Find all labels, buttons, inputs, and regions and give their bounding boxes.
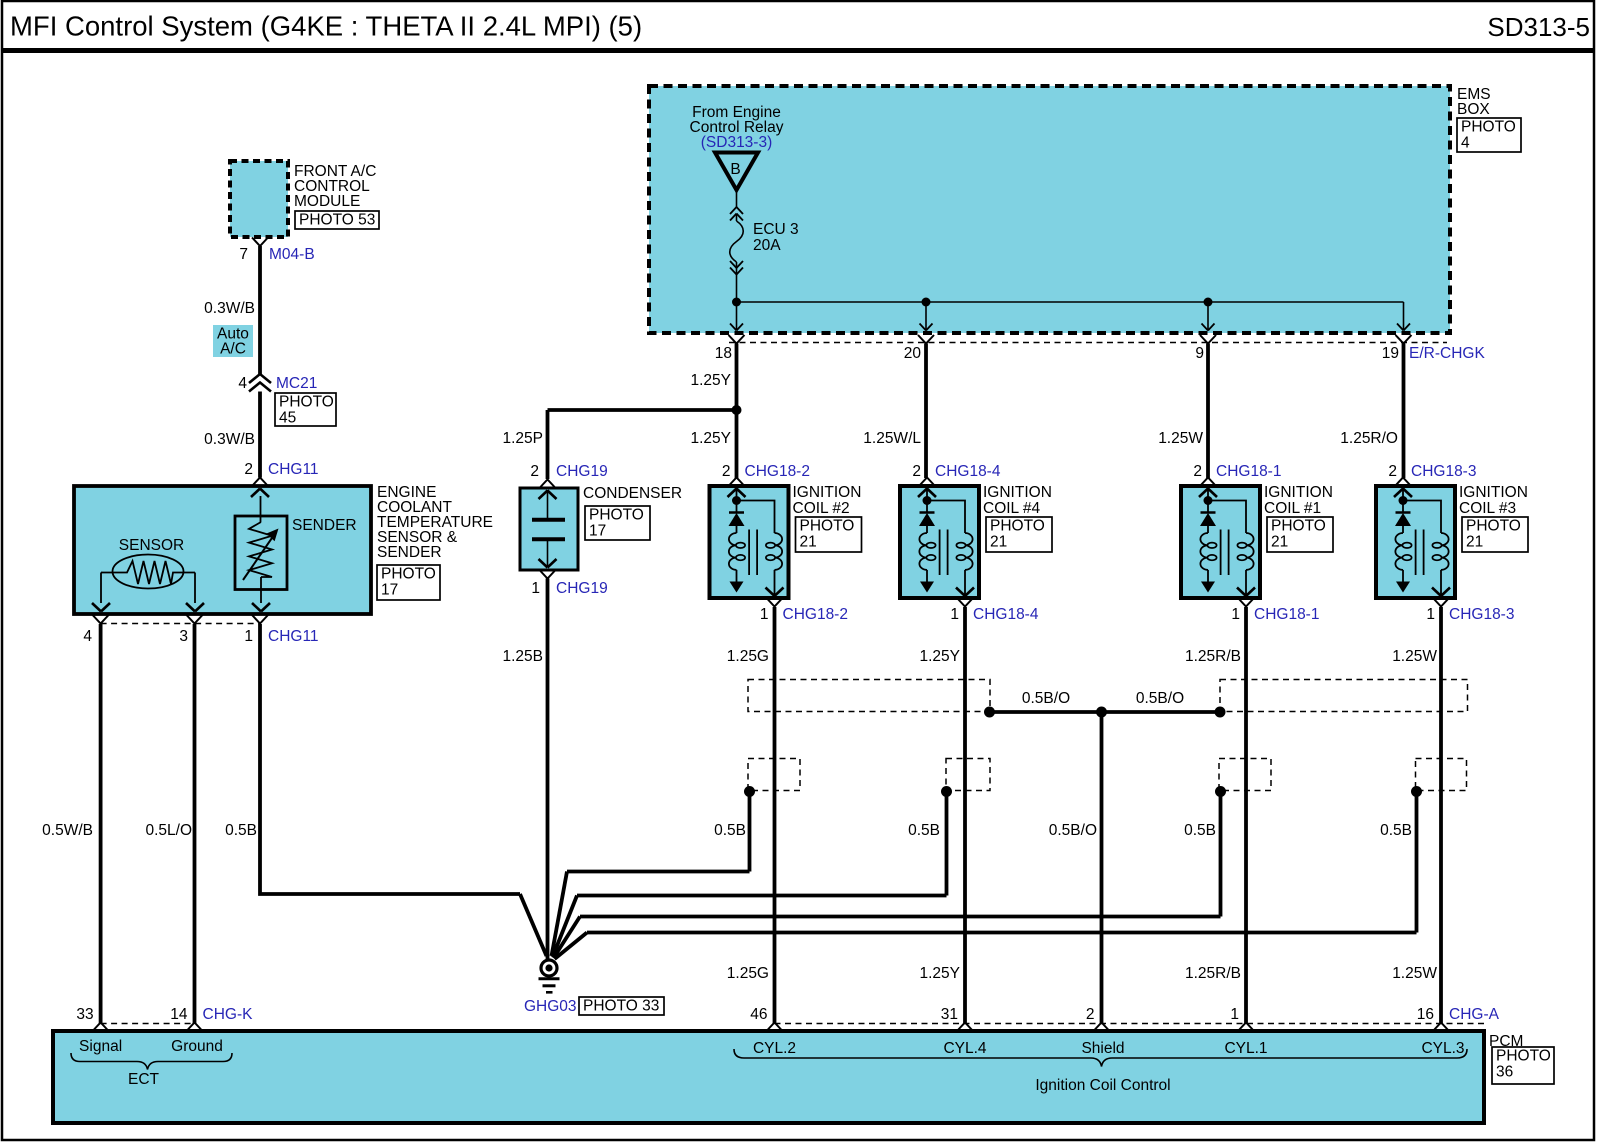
svg-text:4: 4 bbox=[1461, 135, 1470, 152]
svg-text:Ignition Coil Control: Ignition Coil Control bbox=[1035, 1077, 1170, 1094]
svg-text:4: 4 bbox=[83, 628, 92, 645]
svg-text:SENDER: SENDER bbox=[292, 517, 357, 534]
svg-text:Shield: Shield bbox=[1081, 1040, 1124, 1057]
svg-text:19: 19 bbox=[1382, 345, 1399, 362]
svg-text:20A: 20A bbox=[753, 237, 781, 254]
svg-text:17: 17 bbox=[381, 582, 398, 599]
svg-text:1.25W: 1.25W bbox=[1158, 430, 1203, 447]
svg-text:36: 36 bbox=[1496, 1064, 1513, 1081]
svg-text:4: 4 bbox=[238, 375, 247, 392]
svg-text:SD313-5: SD313-5 bbox=[1487, 12, 1590, 42]
svg-text:2: 2 bbox=[1193, 463, 1202, 480]
svg-text:1: 1 bbox=[760, 606, 769, 623]
svg-text:21: 21 bbox=[1271, 534, 1288, 551]
svg-text:0.5B: 0.5B bbox=[1380, 822, 1412, 839]
svg-text:0.5B: 0.5B bbox=[714, 822, 746, 839]
svg-text:PHOTO: PHOTO bbox=[589, 507, 644, 524]
svg-text:9: 9 bbox=[1195, 345, 1204, 362]
svg-text:21: 21 bbox=[800, 534, 817, 551]
svg-text:(SD313-3): (SD313-3) bbox=[701, 134, 773, 151]
svg-text:CONDENSER: CONDENSER bbox=[583, 485, 682, 502]
svg-text:CHG18-2: CHG18-2 bbox=[745, 463, 810, 480]
svg-text:IGNITION: IGNITION bbox=[983, 484, 1052, 501]
svg-text:20: 20 bbox=[904, 345, 922, 362]
svg-text:MC21: MC21 bbox=[276, 375, 317, 392]
svg-text:1: 1 bbox=[1230, 1006, 1239, 1023]
svg-text:CHG18-1: CHG18-1 bbox=[1216, 463, 1281, 480]
svg-text:0.5B/O: 0.5B/O bbox=[1136, 690, 1184, 707]
svg-text:7: 7 bbox=[239, 246, 248, 263]
svg-text:CHG-A: CHG-A bbox=[1449, 1006, 1500, 1023]
svg-text:0.5W/B: 0.5W/B bbox=[42, 822, 93, 839]
svg-text:COIL #2: COIL #2 bbox=[793, 500, 850, 517]
svg-text:GHG03: GHG03 bbox=[524, 998, 577, 1015]
svg-text:1: 1 bbox=[531, 580, 540, 597]
svg-text:2: 2 bbox=[722, 463, 731, 480]
svg-text:IGNITION: IGNITION bbox=[1459, 484, 1528, 501]
svg-text:1.25Y: 1.25Y bbox=[919, 965, 960, 982]
svg-text:1.25W/L: 1.25W/L bbox=[863, 430, 921, 447]
svg-text:1.25R/B: 1.25R/B bbox=[1185, 648, 1241, 665]
svg-text:PHOTO: PHOTO bbox=[381, 566, 436, 583]
svg-text:1: 1 bbox=[244, 628, 253, 645]
svg-text:14: 14 bbox=[170, 1006, 188, 1023]
svg-text:0.5B/O: 0.5B/O bbox=[1022, 690, 1070, 707]
svg-text:1.25P: 1.25P bbox=[502, 430, 543, 447]
svg-text:CHG18-4: CHG18-4 bbox=[973, 606, 1039, 623]
svg-text:1.25B: 1.25B bbox=[502, 648, 543, 665]
svg-text:CHG11: CHG11 bbox=[268, 628, 319, 645]
svg-text:ECU 3: ECU 3 bbox=[753, 221, 799, 238]
svg-text:0.5B: 0.5B bbox=[908, 822, 940, 839]
svg-text:2: 2 bbox=[912, 463, 921, 480]
svg-text:CHG-K: CHG-K bbox=[203, 1006, 254, 1023]
svg-text:PHOTO: PHOTO bbox=[1271, 518, 1326, 535]
svg-text:CHG18-4: CHG18-4 bbox=[935, 463, 1001, 480]
svg-text:21: 21 bbox=[990, 534, 1007, 551]
svg-text:CHG18-1: CHG18-1 bbox=[1254, 606, 1319, 623]
svg-text:SENSOR: SENSOR bbox=[119, 537, 184, 554]
svg-text:PHOTO: PHOTO bbox=[1461, 119, 1516, 136]
svg-text:46: 46 bbox=[750, 1006, 767, 1023]
svg-text:1.25Y: 1.25Y bbox=[919, 648, 960, 665]
svg-text:PHOTO: PHOTO bbox=[800, 518, 855, 535]
svg-text:PHOTO 33: PHOTO 33 bbox=[583, 998, 659, 1015]
svg-text:COIL #3: COIL #3 bbox=[1459, 500, 1516, 517]
svg-text:PHOTO: PHOTO bbox=[1466, 518, 1521, 535]
svg-text:0.3W/B: 0.3W/B bbox=[204, 431, 255, 448]
svg-text:2: 2 bbox=[530, 463, 539, 480]
svg-text:A/C: A/C bbox=[220, 341, 246, 358]
svg-text:1: 1 bbox=[1231, 606, 1240, 623]
svg-text:E/R-CHGK: E/R-CHGK bbox=[1409, 345, 1485, 362]
svg-text:CYL.2: CYL.2 bbox=[753, 1040, 796, 1057]
svg-text:CHG11: CHG11 bbox=[268, 461, 319, 478]
svg-text:3: 3 bbox=[179, 628, 188, 645]
svg-text:COIL #1: COIL #1 bbox=[1264, 500, 1321, 517]
svg-text:CHG18-2: CHG18-2 bbox=[783, 606, 848, 623]
svg-text:M04-B: M04-B bbox=[269, 246, 315, 263]
svg-text:1: 1 bbox=[1426, 606, 1435, 623]
svg-text:SENDER: SENDER bbox=[377, 544, 442, 561]
svg-text:PHOTO: PHOTO bbox=[279, 394, 334, 411]
svg-text:CHG19: CHG19 bbox=[556, 580, 608, 597]
svg-text:Signal: Signal bbox=[79, 1038, 122, 1055]
svg-text:B: B bbox=[730, 161, 740, 178]
svg-text:21: 21 bbox=[1466, 534, 1483, 551]
svg-text:IGNITION: IGNITION bbox=[1264, 484, 1333, 501]
svg-text:2: 2 bbox=[1086, 1006, 1095, 1023]
svg-text:2: 2 bbox=[244, 461, 253, 478]
svg-text:45: 45 bbox=[279, 410, 296, 427]
svg-text:PHOTO: PHOTO bbox=[990, 518, 1045, 535]
svg-text:0.3W/B: 0.3W/B bbox=[204, 300, 255, 317]
svg-text:CYL.1: CYL.1 bbox=[1224, 1040, 1267, 1057]
svg-text:CHG18-3: CHG18-3 bbox=[1449, 606, 1514, 623]
svg-text:1.25W: 1.25W bbox=[1392, 648, 1437, 665]
svg-text:1.25Y: 1.25Y bbox=[690, 372, 731, 389]
svg-text:1.25R/B: 1.25R/B bbox=[1185, 965, 1241, 982]
svg-text:1: 1 bbox=[950, 606, 959, 623]
svg-text:CHG18-3: CHG18-3 bbox=[1411, 463, 1476, 480]
svg-text:CYL.3: CYL.3 bbox=[1421, 1040, 1464, 1057]
svg-text:33: 33 bbox=[76, 1006, 93, 1023]
svg-text:17: 17 bbox=[589, 523, 606, 540]
svg-text:IGNITION: IGNITION bbox=[793, 484, 862, 501]
svg-text:18: 18 bbox=[715, 345, 732, 362]
svg-text:ECT: ECT bbox=[128, 1071, 160, 1088]
svg-text:1.25W: 1.25W bbox=[1392, 965, 1437, 982]
svg-text:PHOTO: PHOTO bbox=[1496, 1048, 1551, 1065]
svg-text:MODULE: MODULE bbox=[294, 193, 360, 210]
svg-text:2: 2 bbox=[1388, 463, 1397, 480]
svg-text:PHOTO 53: PHOTO 53 bbox=[299, 212, 375, 229]
svg-text:Ground: Ground bbox=[171, 1038, 223, 1055]
svg-text:BOX: BOX bbox=[1457, 101, 1490, 118]
svg-text:CYL.4: CYL.4 bbox=[943, 1040, 986, 1057]
svg-text:MFI Control System (G4KE : TH: MFI Control System (G4KE : THETA II 2.4L… bbox=[10, 11, 642, 42]
svg-text:0.5B: 0.5B bbox=[225, 822, 257, 839]
svg-text:COIL #4: COIL #4 bbox=[983, 500, 1041, 517]
svg-text:1.25G: 1.25G bbox=[727, 648, 769, 665]
svg-text:1.25Y: 1.25Y bbox=[690, 430, 731, 447]
svg-text:31: 31 bbox=[941, 1006, 958, 1023]
svg-text:0.5B/O: 0.5B/O bbox=[1049, 822, 1097, 839]
svg-text:0.5B: 0.5B bbox=[1184, 822, 1216, 839]
svg-text:1.25R/O: 1.25R/O bbox=[1340, 430, 1398, 447]
svg-text:16: 16 bbox=[1417, 1006, 1434, 1023]
svg-text:0.5L/O: 0.5L/O bbox=[145, 822, 192, 839]
svg-text:1.25G: 1.25G bbox=[727, 965, 769, 982]
svg-text:CHG19: CHG19 bbox=[556, 463, 608, 480]
